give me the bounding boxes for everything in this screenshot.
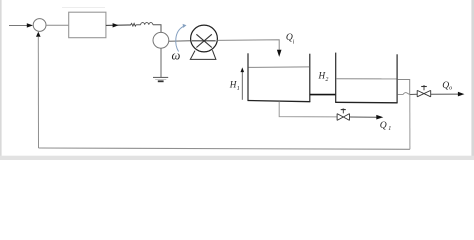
frame left edge [0,0,2,160]
svg-text:i: i [293,40,295,46]
tank 1 water level [249,66,310,69]
input reference arrow [9,23,33,27]
controller output wire with arrow [106,23,131,27]
inductor L [141,23,153,25]
tank 1 left wall [247,53,249,101]
pipe pump to tank 1 [217,40,279,51]
wire junction to controller [46,24,69,26]
svg-text:1: 1 [388,126,391,132]
wire resistor to inductor [136,24,141,26]
valve V1 (between-tank drain valve) [337,109,349,121]
svg-text:1: 1 [237,86,240,92]
inlet arrow into tank 1 [277,50,282,57]
valve V2 (outlet valve) [417,85,431,96]
svg-text:o: o [449,86,452,92]
tank 2 right wall [396,54,398,103]
ground [153,77,168,81]
feedback bottom line [39,148,410,149]
pipe to outlet valve [410,93,418,95]
tank 2 bottom [335,101,397,104]
faint artifact line top [62,7,105,9]
label Q_1 [380,120,392,132]
summing junction [33,19,46,32]
resistor R [131,23,137,26]
pump P (circle with impeller mark) [191,25,218,52]
tank 1 bottom [248,101,311,102]
label Q_i [286,32,295,46]
outflow arrow Q_o [431,92,465,97]
wire inductor to motor [153,25,161,33]
svg-text:Q: Q [380,120,387,131]
feedback arrow into summing junction [36,32,41,37]
tank 2 left wall [335,53,337,103]
tank 2 outlet pipe upper [398,80,410,95]
frame right edge [471,0,474,160]
tank 2 outlet squiggle [398,93,410,95]
label Q_o [442,80,452,92]
feedback tap line down from outlet junction [409,95,411,150]
label H_1 [229,79,240,92]
H1 measure arrow [241,67,245,99]
feedback left line up to summing junction [37,37,39,149]
svg-text:ω: ω [172,49,181,63]
wire motor to pump [169,40,191,43]
wire motor to ground [160,48,162,77]
drain pipe from tank 1 [279,101,337,117]
label H_2 [318,70,329,83]
connecting pipe between tanks [310,94,336,96]
controller block [69,12,106,38]
tank 2 water level [336,78,396,80]
pump stand [190,50,216,59]
tank 1 right wall [309,54,311,102]
arrow after valve V1 [350,115,384,120]
frame bottom edge [0,156,474,160]
svg-text:2: 2 [325,77,328,83]
motor armature circle [153,32,169,48]
rotation arrow (blue arc) [176,24,187,52]
